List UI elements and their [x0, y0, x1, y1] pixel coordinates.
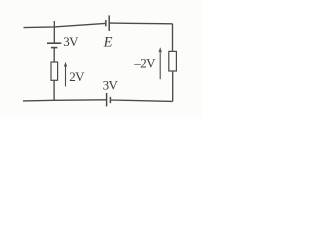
svg-text:–2V: –2V: [133, 56, 156, 71]
svg-text:3V: 3V: [103, 77, 119, 92]
svg-text:3V: 3V: [63, 34, 79, 49]
svg-text:2V: 2V: [69, 69, 85, 84]
svg-text:E: E: [103, 35, 113, 51]
